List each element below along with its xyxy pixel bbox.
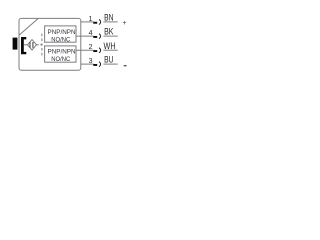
svg-text:PNP/NPN: PNP/NPN	[48, 29, 76, 36]
sensor housing outline	[19, 18, 81, 70]
connector hook pin4	[99, 34, 101, 39]
diamond inner plate 1	[29, 42, 31, 48]
cable end ferrule pin4	[93, 36, 97, 38]
wire from bracket to diamond	[24, 44, 28, 46]
svg-text:BU: BU	[104, 55, 113, 65]
dashed actuation link vertical	[41, 34, 43, 57]
wire pin4 BK	[76, 35, 94, 37]
connector hook pin3	[99, 62, 101, 67]
wire pin1 BN	[81, 21, 94, 23]
connector hook pin2	[99, 48, 101, 53]
conductor line BU	[103, 63, 117, 65]
wire pin3 BU	[81, 63, 94, 65]
conductor line BK	[103, 35, 117, 37]
active face bracket	[21, 37, 26, 54]
svg-text:BK: BK	[104, 27, 113, 37]
cable end ferrule pin1	[93, 22, 97, 24]
svg-text:1: 1	[89, 16, 93, 23]
wire pin2 WH	[76, 49, 94, 51]
diamond inner plate 2	[32, 42, 34, 48]
proximity switch diamond	[28, 40, 37, 50]
actuating target plate	[13, 38, 18, 50]
output stage box U2	[45, 46, 76, 62]
sensing-face diagonal line	[19, 19, 38, 35]
svg-text:4: 4	[89, 30, 93, 37]
conductor line WH	[103, 49, 117, 51]
svg-text:NO/NC: NO/NC	[51, 37, 70, 44]
svg-text:+: +	[122, 20, 126, 27]
output stage box U1	[45, 26, 76, 42]
svg-text:PNP/NPN: PNP/NPN	[48, 49, 76, 56]
svg-text:WH: WH	[104, 41, 116, 51]
svg-text:BN: BN	[104, 13, 113, 23]
polarity minus (0V)	[124, 65, 127, 67]
svg-text:3: 3	[89, 58, 93, 65]
svg-text:NO/NC: NO/NC	[51, 56, 70, 63]
cable end ferrule pin2	[93, 50, 97, 52]
connector hook pin1	[99, 19, 101, 24]
conductor line BN	[103, 21, 117, 23]
dashed actuation link horizontal	[37, 44, 43, 46]
cable end ferrule pin3	[93, 64, 97, 66]
svg-text:2: 2	[89, 44, 93, 51]
